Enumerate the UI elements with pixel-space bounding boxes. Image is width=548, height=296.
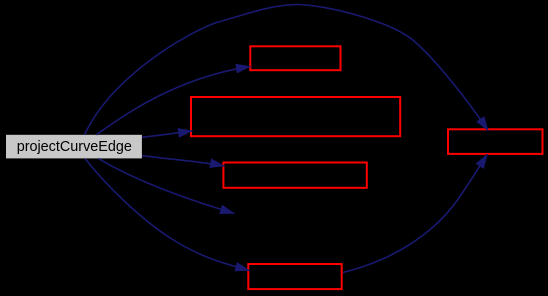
node1 (top red box) bbox=[250, 46, 340, 70]
edge projectCurveEdge -> node3 bbox=[142, 156, 224, 166]
edge node4 -> node5 (bottom arc) bbox=[343, 154, 487, 272]
node3 (middle red box) bbox=[223, 163, 366, 188]
node projectCurveEdge bbox=[6, 135, 142, 159]
edge projectCurveEdge -> node4 bbox=[85, 159, 250, 271]
edge projectCurveEdge -> node1 bbox=[97, 66, 251, 134]
edge projectCurveEdge -> node5 (top arc) bbox=[85, 5, 489, 135]
svg-text:projectCurveEdge: projectCurveEdge bbox=[17, 139, 132, 155]
edge projectCurveEdge -> node2 bbox=[142, 131, 193, 138]
edge projectCurveEdge -> hidden node bbox=[99, 159, 235, 214]
node5 (right red box) bbox=[448, 129, 543, 154]
node2 (large red box) bbox=[191, 97, 400, 136]
node4 (bottom red box) bbox=[248, 264, 341, 289]
